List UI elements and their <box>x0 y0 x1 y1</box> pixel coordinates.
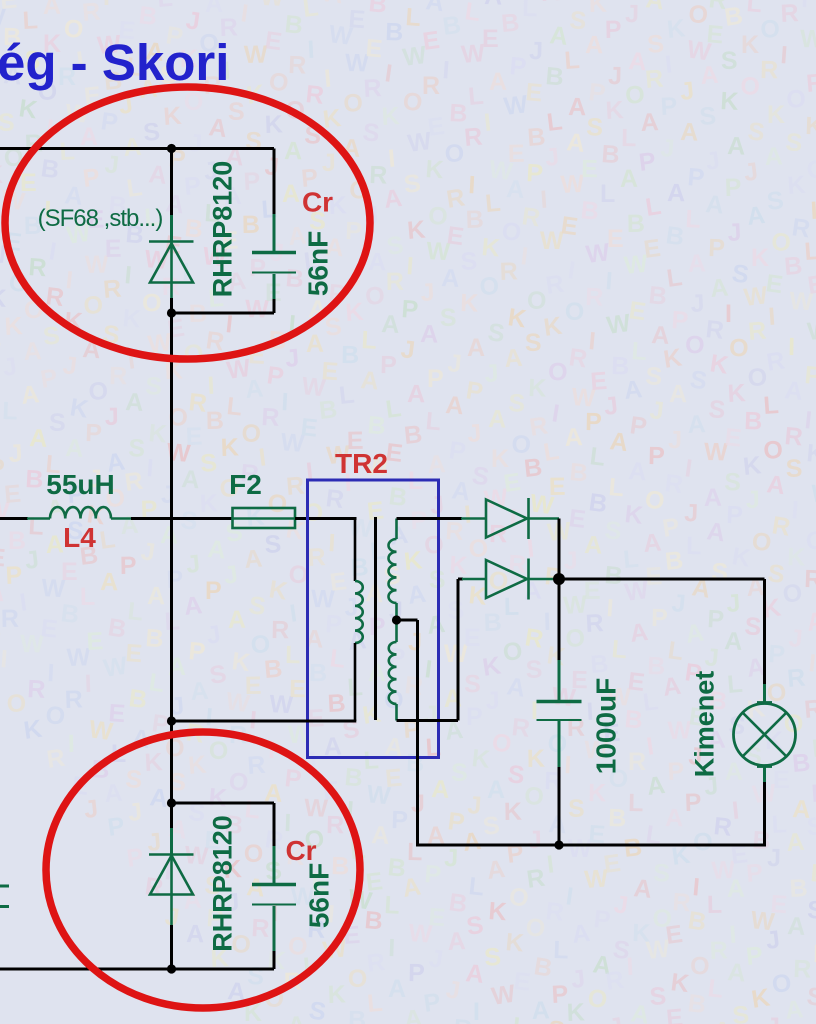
svg-text:A: A <box>467 334 485 362</box>
svg-text:A: A <box>0 578 6 607</box>
wire output top bus <box>559 578 765 581</box>
svg-text:O: O <box>524 913 546 943</box>
svg-text:J: J <box>528 826 542 854</box>
svg-text:K: K <box>588 779 607 807</box>
svg-text:A: A <box>487 776 505 804</box>
svg-text:K: K <box>22 715 44 745</box>
svg-text:B: B <box>39 154 61 184</box>
svg-text:S: S <box>42 321 62 351</box>
svg-text:S: S <box>145 372 163 401</box>
svg-text:A: A <box>147 582 166 610</box>
wire main vertical bus <box>170 313 173 803</box>
svg-text:I: I <box>0 645 8 673</box>
svg-text:A: A <box>726 958 746 987</box>
svg-text:A: A <box>29 424 49 453</box>
svg-text:I: I <box>780 41 789 69</box>
svg-text:J: J <box>146 828 162 857</box>
svg-text:B: B <box>283 10 304 40</box>
svg-text:I: I <box>539 186 548 214</box>
svg-text:O: O <box>781 579 804 609</box>
svg-text:I: I <box>473 998 480 1024</box>
svg-text:J: J <box>612 890 630 920</box>
svg-text:L: L <box>762 391 779 420</box>
svg-text:E: E <box>125 639 144 668</box>
svg-text:J: J <box>420 278 435 307</box>
svg-text:I: I <box>664 50 674 79</box>
svg-text:O: O <box>643 485 666 515</box>
svg-text:K: K <box>460 289 479 318</box>
svg-text:L: L <box>504 593 520 621</box>
svg-text:O: O <box>501 637 524 667</box>
svg-text:K: K <box>566 998 585 1024</box>
svg-text:I: I <box>328 529 336 557</box>
svg-text:E: E <box>105 235 122 263</box>
svg-text:A: A <box>441 264 461 293</box>
svg-text:J: J <box>529 37 543 65</box>
svg-text:A: A <box>183 591 204 621</box>
diode D2 (upper rectifier) <box>486 498 529 539</box>
svg-text:P: P <box>585 408 602 436</box>
svg-text:S: S <box>807 896 816 925</box>
svg-text:I: I <box>47 237 58 266</box>
svg-text:O: O <box>6 689 26 718</box>
svg-text:K: K <box>381 102 401 131</box>
svg-text:S: S <box>743 612 762 641</box>
svg-text:O: O <box>586 984 608 1014</box>
svg-text:A: A <box>684 618 706 648</box>
svg-text:R: R <box>102 275 122 304</box>
svg-text:K: K <box>528 374 547 403</box>
svg-text:A: A <box>359 366 379 395</box>
svg-text:S: S <box>247 591 267 621</box>
svg-text:A: A <box>628 457 648 486</box>
svg-text:K: K <box>406 216 426 245</box>
svg-text:P: P <box>684 788 702 817</box>
svg-text:I: I <box>406 252 415 280</box>
svg-text:E: E <box>3 480 22 509</box>
svg-text:L: L <box>706 974 725 1004</box>
svg-text:J: J <box>668 426 682 454</box>
node secondary center tap <box>392 615 401 624</box>
svg-text:B: B <box>544 62 564 91</box>
svg-text:R: R <box>64 685 83 714</box>
svg-text:B: B <box>608 804 627 833</box>
svg-text:I: I <box>566 256 577 285</box>
svg-text:I: I <box>47 659 55 687</box>
svg-text:RHRP8120: RHRP8120 <box>208 815 238 952</box>
svg-text:A: A <box>186 920 205 948</box>
svg-text:R: R <box>285 472 305 501</box>
svg-text:A: A <box>403 1005 423 1024</box>
node primary return junction <box>167 716 176 725</box>
svg-text:P: P <box>183 172 202 201</box>
svg-text:L: L <box>384 891 401 920</box>
svg-text:W: W <box>800 25 816 53</box>
svg-text:I: I <box>645 732 656 761</box>
svg-text:I: I <box>423 655 433 684</box>
svg-text:B: B <box>647 281 668 311</box>
svg-text:P: P <box>724 173 742 202</box>
svg-text:S: S <box>688 365 709 395</box>
svg-text:I: I <box>691 873 700 901</box>
svg-text:A: A <box>287 1011 307 1024</box>
svg-text:A: A <box>485 855 506 885</box>
svg-text:I: I <box>387 144 396 172</box>
svg-text:R: R <box>326 811 345 839</box>
svg-text:L: L <box>726 670 744 699</box>
svg-text:E: E <box>289 675 306 703</box>
svg-text:I: I <box>605 267 614 295</box>
svg-text:L: L <box>666 636 685 666</box>
svg-text:A: A <box>119 511 139 540</box>
svg-text:P: P <box>424 860 443 889</box>
svg-text:B: B <box>366 411 386 440</box>
svg-text:O: O <box>804 526 816 556</box>
svg-text:L: L <box>405 3 422 32</box>
svg-text:A: A <box>570 919 591 949</box>
wire output bottom bus <box>416 844 766 847</box>
svg-text:S: S <box>49 409 66 437</box>
svg-text:L: L <box>338 381 356 410</box>
svg-text:S: S <box>128 434 146 463</box>
svg-text:P: P <box>187 637 206 666</box>
svg-text:J: J <box>704 146 722 176</box>
svg-text:A: A <box>505 672 527 702</box>
svg-text:S: S <box>711 558 729 587</box>
svg-text:A: A <box>23 337 43 366</box>
svg-text:K: K <box>623 500 644 530</box>
svg-text:P: P <box>660 92 678 121</box>
svg-text:P: P <box>5 561 23 590</box>
svg-text:K: K <box>361 699 383 729</box>
svg-text:R: R <box>525 864 547 894</box>
svg-text:A: A <box>704 190 724 219</box>
svg-text:S: S <box>341 715 362 745</box>
svg-text:E: E <box>567 504 587 534</box>
svg-text:J: J <box>103 150 120 179</box>
svg-text:S: S <box>125 765 144 794</box>
svg-text:B: B <box>744 407 763 436</box>
svg-text:O: O <box>44 701 66 731</box>
svg-text:L: L <box>285 641 301 669</box>
svg-text:J: J <box>222 560 240 590</box>
svg-text:L: L <box>301 0 320 23</box>
svg-text:I: I <box>550 399 561 428</box>
svg-text:A: A <box>705 517 727 547</box>
svg-text:L: L <box>511 1012 529 1024</box>
svg-text:R: R <box>786 664 806 693</box>
svg-text:O: O <box>348 965 368 993</box>
svg-text:P: P <box>726 501 744 530</box>
svg-text:L: L <box>328 644 347 674</box>
transformer secondary winding upper <box>388 519 396 621</box>
svg-text:R: R <box>499 257 518 286</box>
svg-text:P: P <box>745 859 764 888</box>
svg-text:E: E <box>108 699 127 728</box>
svg-text:R: R <box>422 72 440 100</box>
svg-text:O: O <box>565 298 585 326</box>
svg-text:J: J <box>648 396 665 425</box>
svg-text:Kimenet: Kimenet <box>690 671 720 778</box>
svg-text:L: L <box>707 891 723 919</box>
svg-text:A: A <box>787 912 807 941</box>
svg-text:P: P <box>605 16 622 44</box>
svg-text:S: S <box>264 530 282 559</box>
svg-text:R: R <box>246 751 266 780</box>
svg-text:L: L <box>424 407 442 436</box>
svg-text:B: B <box>242 211 261 239</box>
svg-text:I: I <box>728 921 737 949</box>
svg-text:(SF68 ,stb...): (SF68 ,stb...) <box>38 205 163 232</box>
svg-text:P: P <box>369 613 386 641</box>
svg-text:R: R <box>363 74 383 103</box>
svg-text:E: E <box>185 422 203 451</box>
svg-text:A: A <box>43 0 62 20</box>
svg-text:L: L <box>610 635 628 664</box>
svg-text:B: B <box>403 420 424 450</box>
svg-text:O: O <box>747 363 767 392</box>
svg-text:P: P <box>447 436 467 466</box>
svg-text:S: S <box>228 98 245 126</box>
svg-text:K: K <box>805 439 816 468</box>
svg-text:E: E <box>0 0 18 15</box>
svg-text:J: J <box>444 975 462 1005</box>
svg-text:A: A <box>564 423 584 452</box>
svg-text:S: S <box>765 186 785 216</box>
svg-text:R: R <box>760 56 779 84</box>
svg-text:B: B <box>441 11 463 41</box>
capacitor Cr 56nF (bottom) <box>252 803 296 969</box>
svg-text:E: E <box>645 562 663 591</box>
svg-text:A: A <box>243 545 263 574</box>
svg-text:A: A <box>704 484 723 512</box>
svg-text:R: R <box>663 469 684 499</box>
svg-text:O: O <box>785 85 806 114</box>
svg-text:I: I <box>64 266 74 295</box>
svg-text:R: R <box>288 51 307 80</box>
svg-text:E: E <box>307 704 325 733</box>
svg-text:B: B <box>622 833 643 863</box>
svg-text:O: O <box>244 840 264 868</box>
svg-text:R: R <box>403 671 424 701</box>
svg-text:K: K <box>720 87 740 116</box>
svg-text:R: R <box>704 315 725 345</box>
svg-text:O: O <box>444 139 464 168</box>
svg-text:S: S <box>451 759 468 787</box>
svg-text:R: R <box>780 0 800 28</box>
svg-text:K: K <box>147 419 167 448</box>
svg-text:B: B <box>579 196 600 226</box>
svg-text:O: O <box>548 358 568 386</box>
svg-text:A: A <box>368 248 387 276</box>
node bottom junction <box>167 964 176 973</box>
svg-text:P: P <box>628 411 648 441</box>
svg-text:R: R <box>528 411 550 441</box>
svg-text:S: S <box>307 996 328 1024</box>
svg-text:K: K <box>767 101 785 129</box>
svg-text:E: E <box>773 766 790 794</box>
svg-text:E: E <box>665 1004 684 1024</box>
svg-text:A: A <box>725 758 744 786</box>
clipped capacitor plates at left edge <box>0 886 9 907</box>
svg-text:I: I <box>626 953 634 981</box>
svg-text:J: J <box>61 351 78 380</box>
svg-text:I: I <box>587 327 596 355</box>
svg-text:B: B <box>723 1 745 31</box>
svg-text:A: A <box>45 530 64 559</box>
svg-text:B: B <box>587 488 609 518</box>
svg-text:ég - Skori: ég - Skori <box>0 34 229 91</box>
svg-text:E: E <box>627 296 647 326</box>
svg-text:A: A <box>181 465 201 494</box>
svg-text:I: I <box>803 406 813 435</box>
svg-text:I: I <box>103 0 110 11</box>
svg-text:A: A <box>164 189 186 219</box>
svg-text:S: S <box>245 127 263 156</box>
svg-text:P: P <box>745 941 765 971</box>
svg-text:J: J <box>322 149 336 177</box>
capacitor Cr 56nF (top) <box>252 149 296 314</box>
svg-text:B: B <box>350 553 370 582</box>
svg-text:B: B <box>309 659 328 687</box>
svg-text:L: L <box>563 46 580 75</box>
svg-text:L: L <box>545 107 564 137</box>
svg-text:A: A <box>484 0 503 11</box>
svg-text:R: R <box>567 714 586 742</box>
svg-text:R: R <box>604 966 626 996</box>
svg-text:I: I <box>788 333 795 361</box>
svg-text:K: K <box>786 171 806 200</box>
svg-text:J: J <box>767 844 781 872</box>
svg-text:L: L <box>59 137 76 166</box>
svg-text:B: B <box>327 689 347 718</box>
svg-text:B: B <box>601 140 621 169</box>
svg-text:K: K <box>669 968 690 998</box>
svg-text:A: A <box>699 61 719 90</box>
svg-text:R: R <box>261 403 281 432</box>
svg-text:I: I <box>509 504 518 532</box>
svg-text:A: A <box>431 775 451 804</box>
svg-text:O: O <box>565 624 586 653</box>
svg-text:I: I <box>68 730 75 758</box>
svg-text:J: J <box>764 925 781 954</box>
svg-text:K: K <box>481 651 503 681</box>
svg-text:B: B <box>263 655 283 684</box>
svg-text:A: A <box>565 128 586 158</box>
svg-text:E: E <box>607 225 624 253</box>
svg-text:E: E <box>299 413 319 443</box>
svg-text:J: J <box>466 419 482 448</box>
svg-text:J: J <box>23 545 40 574</box>
svg-text:S: S <box>806 812 816 841</box>
svg-text:R: R <box>27 675 47 704</box>
svg-text:A: A <box>382 184 403 214</box>
svg-text:I: I <box>146 454 155 482</box>
svg-text:B: B <box>318 395 339 425</box>
svg-text:B: B <box>343 763 363 792</box>
svg-text:L: L <box>542 437 561 467</box>
svg-text:S: S <box>361 118 381 148</box>
svg-text:I: I <box>767 303 776 331</box>
node rectifier output <box>553 573 565 585</box>
svg-text:B: B <box>183 214 204 244</box>
svg-text:L4: L4 <box>63 522 96 553</box>
svg-text:K: K <box>787 543 806 572</box>
svg-text:I: I <box>84 670 92 698</box>
svg-text:O: O <box>500 217 522 247</box>
svg-text:K: K <box>527 745 546 773</box>
svg-text:A: A <box>783 376 804 406</box>
svg-text:E: E <box>524 78 543 107</box>
svg-text:O: O <box>750 527 773 557</box>
svg-text:P: P <box>345 217 363 246</box>
svg-text:O: O <box>729 334 749 362</box>
svg-text:S: S <box>724 468 742 497</box>
svg-text:A: A <box>632 874 653 904</box>
svg-text:A: A <box>464 959 485 989</box>
svg-text:E: E <box>705 20 724 49</box>
svg-text:K: K <box>162 102 182 131</box>
svg-text:O: O <box>401 87 424 117</box>
svg-text:R: R <box>445 517 465 546</box>
svg-text:A: A <box>388 521 410 551</box>
svg-text:A: A <box>628 618 649 648</box>
svg-text:R: R <box>805 69 816 98</box>
svg-text:J: J <box>284 344 300 373</box>
svg-text:P: P <box>166 565 184 594</box>
svg-text:B: B <box>568 458 588 487</box>
svg-text:A: A <box>531 996 550 1024</box>
svg-text:J: J <box>544 143 561 172</box>
wire mid bus center <box>131 517 233 520</box>
svg-text:L: L <box>156 0 174 13</box>
diode D4 RHRP8120 (bottom snubber) <box>149 803 194 969</box>
wire secondary bottom to diode <box>397 579 487 721</box>
svg-text:B: B <box>664 221 686 251</box>
svg-text:B: B <box>341 341 360 369</box>
svg-text:P: P <box>427 365 444 393</box>
svg-text:B: B <box>789 874 809 903</box>
svg-text:R: R <box>765 346 787 376</box>
svg-text:J: J <box>787 624 803 653</box>
svg-text:S: S <box>785 454 803 483</box>
svg-text:J: J <box>263 152 280 181</box>
svg-text:B: B <box>532 952 554 982</box>
svg-text:55uH: 55uH <box>46 469 114 500</box>
svg-text:L: L <box>361 326 378 355</box>
svg-text:A: A <box>669 380 688 408</box>
svg-text:J: J <box>408 628 422 656</box>
svg-text:A: A <box>568 93 587 121</box>
inductor L4 55uH <box>27 507 132 518</box>
svg-text:I: I <box>288 599 299 628</box>
svg-text:J: J <box>679 77 696 106</box>
svg-text:J: J <box>444 844 459 872</box>
svg-text:O: O <box>364 281 386 311</box>
svg-text:A: A <box>645 771 666 801</box>
svg-text:J: J <box>83 795 100 824</box>
svg-text:O: O <box>690 952 710 980</box>
svg-text:P: P <box>120 552 137 580</box>
svg-text:K: K <box>425 155 445 184</box>
svg-text:R: R <box>628 748 646 776</box>
svg-text:K: K <box>199 489 218 518</box>
svg-text:A: A <box>805 607 816 637</box>
svg-text:L: L <box>407 838 423 866</box>
svg-text:K: K <box>741 31 759 59</box>
svg-text:B: B <box>500 9 520 38</box>
svg-text:L: L <box>22 6 39 35</box>
